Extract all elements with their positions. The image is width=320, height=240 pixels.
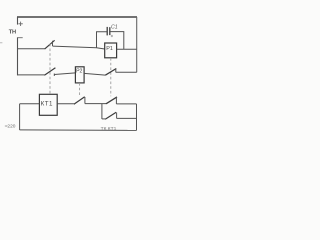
contact TK drop [116,113,118,119]
linkage dashed P1 to contact [110,58,112,96]
wire rung2 right [117,48,137,50]
wire rung4 a [57,103,74,105]
contact KT1.2 tick [53,74,55,77]
wire left bus upper segment [17,17,19,25]
capacitor C1 right plate [109,27,111,35]
svg-text:ТН: ТН [9,30,16,36]
svg-text:Р1: Р1 [106,46,113,52]
linkage dashed P2 to contact [79,83,81,95]
capacitor C1 polarity plus [111,35,113,37]
svg-text:КТ1: КТ1 [41,100,53,107]
wire rung3 mid-right [84,73,105,75]
wire right drop [136,104,138,130]
contact P1.2 blade [106,97,117,104]
capacitor C1 right wire [110,32,124,50]
wire rung4 b [85,103,106,105]
wire rung2 left [18,48,45,50]
wire branch left vertical [101,104,103,119]
wire bottom bus [20,129,137,132]
svg-text:≈220: ≈220 [5,123,16,129]
svg-text:ТК КТ1: ТК КТ1 [101,126,117,132]
wire rung3 right [116,71,137,73]
contact KT1.2 blade (NO) [44,68,55,76]
contact TK blade [105,112,116,119]
contact KT1.1 blade (NC) [45,40,55,49]
stray mark left edge [0,42,2,44]
contact P2.1 drop [84,97,86,104]
wire rung3 mid-left [54,73,75,75]
wire top bus [17,16,137,18]
wire rung2 middle [53,46,105,49]
wire left bus lower segment [17,37,19,75]
relay coil P1 box [105,43,117,58]
time relay KT1 box [39,94,57,115]
contact KT1.1 stop tick [52,41,54,46]
svg-text:С1: С1 [111,25,118,31]
svg-text:Р2: Р2 [76,69,82,75]
wire rung3 left [18,74,45,76]
capacitor C1 left plate [106,27,108,36]
wire KT1 left [20,103,40,105]
contact P1.2 drop [115,97,117,104]
node minus terminal [18,37,23,39]
node plus terminal [18,22,22,26]
wire branch b [117,117,137,119]
wire branch a [102,118,105,120]
wire left drop [19,104,21,130]
wire right bus [136,17,138,72]
contact P1.1 drop [115,69,117,73]
capacitor C1 left wire [97,32,107,48]
contact P1.1 blade [105,69,116,76]
linkage dashed KT1 [49,44,51,94]
contact P2.1 blade [74,97,85,105]
relay coil P2 box [75,67,84,83]
wire rung4 c [116,103,136,105]
